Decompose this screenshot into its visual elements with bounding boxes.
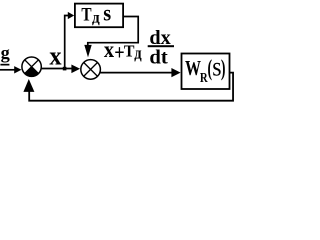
block WR (regulator)	[181, 54, 229, 90]
junction dot	[63, 67, 67, 71]
underline of g	[0, 64, 9, 66]
wire block Td s output down into S2	[88, 16, 138, 46]
svg-text:dt: dt	[149, 47, 168, 69]
svg-text:g: g	[1, 43, 10, 63]
arrowhead down into S2	[84, 45, 91, 58]
svg-text:Т: Т	[81, 5, 91, 26]
svg-text:д: д	[134, 43, 142, 62]
wire S1 to S2	[41, 67, 72, 69]
arrowhead up into S1	[23, 79, 34, 92]
wire branch up to derivative block	[65, 15, 69, 68]
wire S2 to regulator block	[100, 72, 172, 74]
svg-text:д: д	[92, 9, 100, 26]
svg-text:): )	[221, 56, 226, 81]
arrowhead into summing junction S1	[14, 66, 21, 73]
wire WR output and feedback to S1	[29, 73, 233, 101]
arrowhead into block Td s	[68, 12, 74, 19]
svg-text:x: x	[49, 41, 61, 70]
svg-text:s: s	[103, 1, 111, 26]
arrowhead into W block	[171, 68, 180, 77]
block Td s (derivative)	[75, 4, 123, 28]
summing junction S1 (comparator, bottom sector filled)	[22, 57, 41, 76]
arrowhead into summing junction S2	[71, 64, 80, 73]
summing junction S2	[81, 60, 101, 80]
wire g input line	[0, 69, 15, 71]
fraction bar	[148, 45, 174, 47]
svg-text:W: W	[185, 56, 201, 80]
svg-text:x: x	[104, 37, 115, 62]
